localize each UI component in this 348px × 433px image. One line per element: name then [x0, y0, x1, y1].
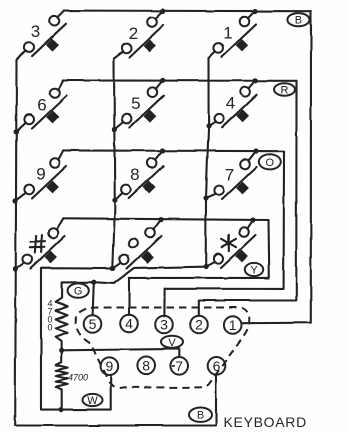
key switch S4 bottom contact — [215, 113, 225, 123]
key switch S5 top contact — [148, 87, 158, 97]
svg-text:4: 4 — [226, 93, 235, 112]
junction row-4 / key * lever — [250, 217, 255, 222]
wire net V (resistor junction to pin 7) — [62, 349, 180, 357]
wire net Y (row-4 to pin 4) — [129, 220, 269, 315]
svg-text:R: R — [281, 85, 289, 97]
svg-text:9: 9 — [36, 165, 45, 184]
key switch S2 keycap diamond — [143, 40, 156, 53]
svg-text:1: 1 — [223, 24, 232, 43]
wire right column (bottoms of keys 1,4,7,*) — [206, 58, 209, 267]
svg-text:B: B — [197, 410, 204, 422]
key switch S* top contact — [239, 227, 249, 237]
key switch S* lever — [221, 235, 256, 268]
junction resistor R2 bottom / net W — [58, 407, 63, 412]
svg-text:2: 2 — [195, 317, 203, 333]
key switch S8 lever — [129, 166, 164, 199]
key switch S6 keycap diamond — [46, 111, 59, 124]
svg-text:V: V — [168, 337, 176, 349]
key switch S3 bottom contact tail to column — [17, 50, 26, 60]
key switch S0 bottom contact tail to column — [113, 263, 121, 269]
svg-text:4700: 4700 — [68, 373, 88, 383]
key switch S0 label 0 — [129, 239, 138, 248]
key switch S1 keycap diamond — [236, 39, 249, 52]
key switch S9 lever — [32, 166, 67, 199]
wire row-1 bus (tops of keys 3,2,1) — [64, 10, 311, 13]
key switch S6 lever — [32, 96, 67, 129]
key switch S2 lever — [129, 25, 164, 58]
connector pin 8 — [137, 357, 155, 375]
key switch S# bottom contact — [22, 255, 32, 265]
wire row-2 bus (tops of keys 6,5,4) — [63, 79, 296, 81]
connector pin 6 — [208, 357, 226, 375]
junction row-1 / key 2 lever — [160, 8, 165, 13]
wire net R (row-2 to pin 2) — [199, 81, 297, 316]
svg-text:4: 4 — [125, 316, 133, 332]
svg-text:W: W — [87, 395, 98, 407]
connector pin 1 — [224, 316, 242, 334]
junction row-3 / key 7 lever — [253, 148, 258, 153]
svg-text:3: 3 — [160, 317, 168, 333]
key switch S7 keycap diamond — [236, 182, 249, 195]
svg-text:8: 8 — [142, 357, 150, 373]
svg-text:KEYBOARD: KEYBOARD — [224, 414, 307, 430]
key switch S6 top contact link to bus — [58, 81, 63, 90]
svg-text:6: 6 — [213, 358, 221, 374]
connector pin 7 — [170, 357, 188, 375]
key switch S8 keycap diamond — [143, 181, 156, 194]
junction left column / key # — [13, 266, 18, 271]
junction right column / key 4 — [206, 123, 211, 128]
resistor R2 4700 ohm — [56, 350, 68, 409]
wire pin-5 node to resistor R1 top — [62, 282, 94, 298]
key switch S* bottom contact — [213, 254, 223, 264]
wire tag Y — [245, 263, 263, 277]
connector pin 4 — [120, 315, 138, 333]
svg-text:6: 6 — [37, 96, 46, 115]
key switch S4 top contact link to bus — [248, 80, 255, 88]
wire net O (row-3 to pin 3) — [164, 151, 284, 316]
key switch S6 top contact — [50, 88, 60, 98]
key switch S0 lever — [127, 236, 162, 269]
wire net B (row-1 to pin 1) — [242, 11, 311, 323]
key switch S7 lever — [222, 167, 257, 200]
connector pin 5 — [84, 315, 102, 333]
wire tag O — [259, 154, 281, 169]
key switch S9 keycap diamond — [46, 181, 59, 194]
connector pin 9 — [101, 357, 119, 375]
wire tag G — [68, 283, 89, 297]
junction right column / key 7 — [203, 195, 208, 200]
key switch S7 top contact link to bus — [248, 151, 256, 161]
svg-text:Y: Y — [250, 265, 258, 277]
key switch S8 top contact link to bus — [155, 151, 163, 160]
junction row-2 / key 5 lever — [160, 78, 165, 83]
key switch S0 top contact — [145, 228, 155, 238]
key switch S1 lever — [222, 25, 257, 58]
key switch S1 top contact — [240, 17, 250, 27]
svg-text:7: 7 — [225, 166, 234, 185]
wire row-4 bus (tops of keys #,0,*) — [63, 218, 268, 220]
svg-text:7: 7 — [175, 358, 183, 374]
junction resistor divider / net V — [59, 348, 64, 353]
junction row-2 / key 4 lever — [253, 78, 258, 83]
wire tag V — [161, 336, 183, 349]
key switch S9 top contact — [50, 158, 60, 168]
wire tag B (top right) — [287, 13, 309, 27]
svg-text:G: G — [74, 286, 83, 298]
key switch S1 bottom contact tail to column — [209, 51, 216, 58]
key switch S0 keycap diamond — [141, 251, 154, 264]
svg-text:5: 5 — [89, 316, 97, 332]
wire tag R — [274, 83, 295, 96]
junction right column / key * / net G — [203, 264, 208, 269]
key switch S3 keycap diamond — [46, 38, 59, 51]
key switch S# keycap diamond — [44, 251, 57, 264]
junction left column / key 9 — [12, 198, 17, 203]
svg-text:B: B — [295, 15, 302, 27]
wire net W loop (middle column to pin 9) — [41, 268, 113, 409]
wire middle column (bottoms of keys 2,5,8,0) — [113, 59, 115, 269]
key switch S# lever — [30, 236, 65, 269]
junction middle column / key 8 — [112, 198, 117, 203]
key switch S4 keycap diamond — [236, 109, 249, 122]
key switch S4 lever — [222, 95, 257, 128]
connector pin 3 — [155, 316, 173, 334]
wire tag W — [83, 394, 103, 407]
key switch S6 bottom contact — [24, 115, 34, 125]
key switch S# bottom contact tail to column — [15, 263, 24, 269]
key switch S3 lever — [32, 24, 67, 57]
junction row-1 / key 1 lever — [252, 8, 257, 13]
wire row-3 bus (tops of keys 9,8,7) — [63, 149, 284, 152]
connector shell outline (dashed) — [76, 307, 250, 387]
resistor R1 value label 4700 (vertical) — [47, 299, 52, 333]
key switch S3 bottom contact — [24, 42, 34, 52]
svg-text:3: 3 — [31, 22, 40, 41]
key switch S1 top contact link to bus — [248, 11, 255, 18]
key switch S8 bottom contact — [121, 185, 131, 195]
wire bottom rail (left column to pin 6) — [15, 375, 216, 426]
svg-text:2: 2 — [129, 24, 138, 43]
junction left column / key 6 — [13, 129, 18, 134]
key switch S2 bottom contact tail to column — [114, 52, 123, 59]
junction pin-5 node — [91, 280, 96, 285]
svg-text:0: 0 — [47, 323, 52, 333]
key switch S# label # — [30, 235, 45, 253]
wire net G (right column to pin 5) — [94, 267, 206, 284]
key switch S7 top contact — [240, 159, 250, 169]
key switch S# top contact — [48, 228, 58, 238]
junction row-3 / key 8 lever — [160, 148, 165, 153]
key switch S8 top contact — [147, 158, 157, 168]
key switch S2 top contact link to bus — [155, 11, 163, 19]
wire pin-5 riser — [93, 282, 94, 315]
key switch S4 bottom contact tail to column — [209, 122, 216, 126]
key switch S* keycap diamond — [235, 250, 248, 263]
svg-text:1: 1 — [229, 317, 237, 333]
connector pin 2 — [190, 316, 208, 334]
key switch S2 top contact — [147, 17, 157, 27]
svg-text:8: 8 — [130, 165, 139, 184]
key switch S6 bottom contact tail to column — [16, 123, 26, 132]
key switch S0 bottom contact — [119, 255, 129, 265]
key switch S1 bottom contact — [214, 43, 224, 53]
resistor R1 4700 ohm — [56, 298, 68, 350]
junction middle column / key 0 / net W — [110, 266, 115, 271]
svg-text:5: 5 — [131, 94, 140, 113]
junction middle column / key 5 — [112, 127, 117, 132]
key switch S7 bottom contact — [214, 186, 224, 196]
key switch S8 bottom contact tail to column — [115, 193, 123, 201]
key switch S9 bottom contact — [24, 185, 34, 195]
key switch S* label * — [222, 235, 236, 251]
svg-text:9: 9 — [106, 358, 114, 374]
junction row-4 / key 0 lever — [158, 217, 163, 222]
wire tag B (bottom) — [189, 408, 212, 422]
key switch S5 lever — [129, 95, 164, 128]
key switch S9 top contact link to bus — [58, 150, 63, 159]
key switch S# top contact link to bus — [56, 218, 63, 229]
key switch S5 top contact link to bus — [156, 80, 163, 89]
svg-text:O: O — [266, 157, 275, 169]
key switch S2 bottom contact — [121, 44, 131, 54]
key switch S5 bottom contact tail to column — [114, 122, 123, 129]
key switch S* top contact link to bus — [247, 220, 253, 229]
key switch S0 top contact link to bus — [153, 220, 161, 230]
key switch S3 top contact link to bus — [58, 11, 64, 18]
wire left column (bottoms of keys 3,6,9,#) — [15, 60, 16, 426]
key switch S7 bottom contact tail to column — [206, 194, 216, 198]
key switch S5 bottom contact — [122, 114, 132, 124]
key switch S4 top contact — [240, 87, 250, 97]
key switch S* bottom contact tail to column — [206, 262, 215, 267]
key switch S3 top contact — [50, 16, 60, 26]
key switch S5 keycap diamond — [144, 110, 157, 123]
key switch S9 bottom contact tail to column — [15, 193, 26, 201]
